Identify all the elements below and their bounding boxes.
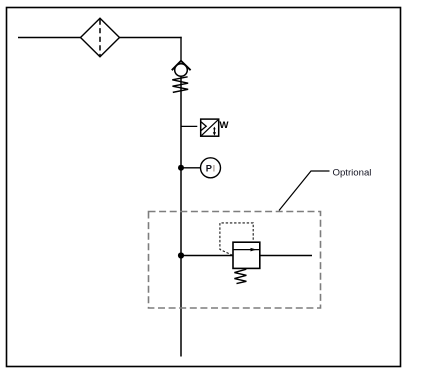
- svg-text:I: I: [213, 163, 216, 173]
- check valve V1: [172, 61, 191, 93]
- wire regulator to right: [260, 255, 312, 257]
- wire corner down to check valve: [180, 37, 182, 62]
- node junction at gauge: [178, 165, 184, 171]
- svg-text:P: P: [206, 163, 212, 173]
- node junction at regulator: [178, 252, 184, 258]
- wire branch to transducer: [181, 125, 197, 127]
- filter F1: [81, 18, 120, 57]
- gauge PI: [201, 158, 221, 178]
- wire check valve to bottom: [180, 76, 182, 357]
- regulator R1: [233, 242, 260, 283]
- pilot line dashed: [220, 223, 253, 255]
- leader line: [279, 171, 330, 211]
- svg-text:W: W: [220, 120, 229, 131]
- pressure transducer U1: [201, 119, 219, 136]
- wire to gauge: [181, 167, 200, 169]
- wire inlet left: [18, 37, 81, 39]
- wire filter to corner: [120, 37, 182, 39]
- svg-text:Optrional: Optrional: [333, 168, 372, 179]
- optional dashed box: [149, 212, 321, 309]
- wire junction to regulator: [181, 255, 233, 257]
